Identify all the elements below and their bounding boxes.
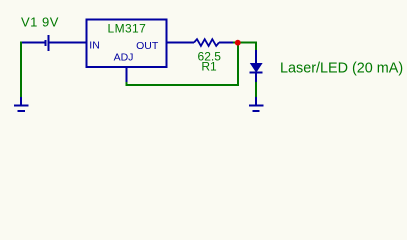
svg-text:V1 9V: V1 9V [21,15,59,30]
ground (right) [249,97,264,111]
ref label R1 [201,60,217,74]
wire OUT pin to resistor [167,42,194,44]
resistor R1 zigzag [194,39,233,46]
pin name IN [89,39,100,51]
svg-text:R1: R1 [201,60,217,74]
wire resistor to LED (green) [233,42,257,51]
wire battery minus down to ground [20,42,22,98]
op-amp U1 LM317 regulator box [87,20,167,68]
svg-text:IN: IN [89,39,100,51]
label LM317 [108,21,147,35]
ADJ pin stub [126,68,128,83]
pin name OUT [136,40,159,52]
junction node (red dot) [235,40,241,46]
svg-text:ADJ: ADJ [114,52,134,64]
diode D1 Laser/LED [250,50,263,82]
svg-text:Laser/LED (20 mA): Laser/LED (20 mA) [280,61,403,77]
wire ADJ feedback loop (green) [126,45,240,87]
value label 62.5 [198,50,222,64]
wire LED cathode to ground (green) [255,82,257,97]
svg-text:OUT: OUT [136,40,159,52]
battery V1 [21,35,87,51]
ground (left) [14,97,29,111]
label V1 9V [21,15,59,30]
pin name ADJ [114,52,134,64]
label Laser/LED (20 mA) [280,61,403,77]
svg-text:LM317: LM317 [108,21,147,35]
